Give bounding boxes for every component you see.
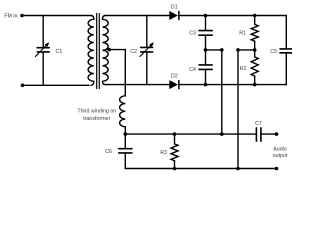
capacitor C4 — [205, 50, 207, 64]
node R2 bottom on mid rail — [253, 83, 257, 87]
wire stub R1/R2 node down to bottom rail — [237, 50, 239, 169]
wire bottom rail — [125, 168, 276, 170]
node R1/R2 stub top junction — [236, 48, 240, 52]
capacitor C6 — [124, 134, 126, 148]
svg-text:C1: C1 — [56, 49, 63, 55]
wire top rail left (FM in to primary winding) — [22, 15, 91, 17]
wire tap to third winding — [108, 50, 126, 95]
resistor R1 — [251, 16, 258, 50]
wire node C3/C4 junction to stub — [206, 49, 222, 51]
node R1 bottom R2 top junction — [253, 48, 257, 52]
svg-text:D2: D2 — [171, 74, 178, 80]
transformer core — [97, 14, 100, 89]
capacitor C3 — [205, 16, 207, 31]
svg-text:Third winding on: Third winding on — [77, 108, 116, 114]
svg-text:D1: D1 — [171, 4, 178, 10]
capacitor C2 (variable) — [146, 16, 148, 47]
svg-text:R2: R2 — [240, 66, 247, 72]
svg-text:transformer: transformer — [83, 116, 110, 122]
node R3 bottom on bottom rail — [173, 167, 177, 171]
node R1/R2 stub bottom on bottom rail — [236, 167, 240, 171]
node audio output top terminal — [275, 132, 279, 136]
node third winding / C6 on audio rail — [124, 132, 128, 136]
wire D1 output rail to C5 top — [179, 16, 286, 49]
wire node R1/R2 junction — [238, 49, 255, 51]
svg-text:R1: R1 — [239, 30, 246, 36]
node C3 bottom junction — [204, 48, 208, 52]
transformer primary winding L1 — [88, 16, 94, 86]
svg-text:Audio: Audio — [273, 146, 287, 152]
node C4 bottom on mid rail — [204, 83, 208, 87]
wire audio rail — [125, 133, 256, 135]
capacitor C1 (variable) — [42, 16, 44, 48]
svg-text:C7: C7 — [255, 121, 262, 127]
svg-text:output: output — [273, 153, 288, 159]
node FM in top terminal — [20, 14, 24, 18]
svg-text:C4: C4 — [189, 67, 196, 73]
node C3 top junction — [204, 14, 208, 18]
wire secondary top to D1 — [105, 15, 169, 17]
diode D2 — [169, 80, 178, 89]
svg-text:C5: C5 — [270, 49, 277, 55]
wire stub C3/C4 node down to audio rail — [221, 50, 223, 134]
resistor R2 — [251, 50, 258, 85]
wire bottom rail left (FM in low side) — [23, 84, 90, 86]
svg-text:R3: R3 — [160, 150, 167, 156]
wire D2 output rail to C5 bottom — [179, 54, 286, 85]
svg-text:FM in: FM in — [4, 13, 17, 19]
node FM in bottom terminal — [21, 84, 25, 88]
svg-text:C2: C2 — [130, 49, 137, 55]
wire secondary bottom to D2 — [105, 84, 169, 86]
node transformer tap — [107, 48, 111, 52]
diode D1 — [169, 11, 178, 20]
resistor R3 — [171, 134, 178, 168]
node R1 top junction — [253, 14, 257, 18]
svg-text:C3: C3 — [189, 30, 196, 36]
capacitor C5 — [280, 48, 292, 50]
svg-text:C6: C6 — [105, 149, 112, 155]
arrowhead C1 — [45, 42, 50, 47]
node audio output bottom terminal — [275, 167, 279, 171]
capacitor C7 (coupling) — [255, 128, 257, 141]
node C3/C4 stub top junction — [220, 48, 224, 52]
transformer secondary winding L2 — [103, 16, 109, 85]
node R3 top on audio rail — [173, 132, 177, 136]
node C3/C4 stub bottom on audio rail — [220, 132, 224, 136]
transformer third winding L3 — [120, 95, 126, 135]
arrowhead C2 — [149, 42, 154, 47]
